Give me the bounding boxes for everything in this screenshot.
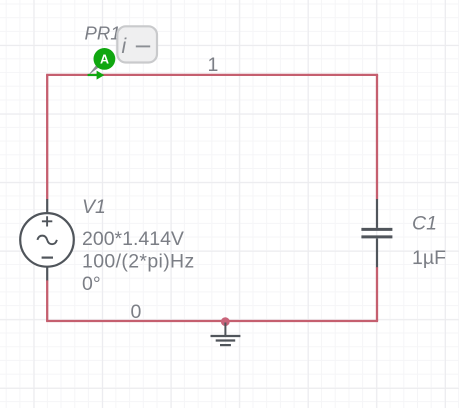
current probe PR1: A badge [94,48,116,70]
svg-text:C1: C1 [412,212,437,234]
svg-text:PR1: PR1 [85,23,121,44]
svg-text:1µF: 1µF [412,247,446,269]
svg-text:0: 0 [131,301,142,323]
wire net 0: bottom horizontal segment [46,320,378,322]
svg-text:100/(2*pi)Hz: 100/(2*pi)Hz [82,251,195,273]
value 0 degrees [82,273,101,295]
wire net 1: right vertical segment (top corner to C1 top lead) [376,75,378,199]
junction node dot (net 0 / ground tap) [221,317,230,326]
value 100/(2*pi)Hz [82,251,195,273]
label V1 [82,196,106,218]
wire net 0: left vertical segment (V1 bottom lead to bottom corner) [46,280,48,321]
svg-text:0°: 0° [82,273,101,295]
value 200*1.414V [82,228,184,250]
svg-text:200*1.414V: 200*1.414V [82,228,184,250]
ac source V1 [20,199,74,280]
current probe PR1: label [85,23,121,44]
current probe PR1: direction arrow on wire [88,71,105,80]
node label 0 [131,301,142,323]
node label 1 [208,54,219,76]
wire net 1: top horizontal segment [46,74,378,76]
capacitor C1 [361,199,392,267]
wire net 1: left vertical segment (top corner to V1 top lead) [46,75,48,199]
svg-text:V1: V1 [82,196,106,218]
label C1 [412,212,437,234]
ground [211,323,241,346]
value 1uF [412,247,446,269]
wire net 0: right vertical segment (C1 bottom lead to bottom corner) [376,267,378,321]
current probe PR1: instrument button [117,26,157,62]
current probe PR1: needle pointer [88,65,99,75]
svg-text:A: A [100,52,109,66]
svg-text:1: 1 [208,54,219,76]
